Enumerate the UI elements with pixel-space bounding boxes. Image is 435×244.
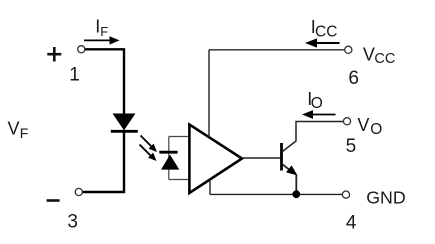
current arrow ICC bbox=[305, 38, 340, 47]
svg-text:GND: GND bbox=[366, 188, 406, 208]
photodiode bottom stub wire bbox=[169, 179, 190, 181]
svg-text:6: 6 bbox=[348, 68, 359, 89]
light emission arrow 1 bbox=[141, 136, 158, 153]
terminal pin 4 bbox=[342, 191, 349, 198]
junction node emitter-GND bbox=[292, 190, 300, 198]
svg-text:F: F bbox=[20, 125, 29, 141]
svg-text:V: V bbox=[357, 115, 369, 135]
svg-text:F: F bbox=[100, 24, 108, 39]
svg-text:V: V bbox=[363, 44, 375, 64]
svg-text:O: O bbox=[311, 95, 323, 112]
svg-text:5: 5 bbox=[346, 136, 357, 157]
wire GND drop from amp bbox=[209, 181, 211, 195]
photodiode axis wire bbox=[168, 137, 170, 180]
op-amp / detector amplifier U1 bbox=[189, 125, 242, 194]
wire base from amp to transistor bbox=[242, 157, 282, 159]
terminal pin 6 bbox=[345, 46, 352, 53]
LED D1 (emitter diode) bbox=[114, 114, 135, 130]
svg-text:4: 4 bbox=[346, 213, 357, 234]
wire GND rail to pin 4 bbox=[210, 193, 342, 195]
wire pin1 to LED anode bbox=[85, 49, 124, 114]
wire Vcc riser from amp bbox=[208, 50, 210, 138]
terminal pin 3 bbox=[75, 188, 82, 195]
svg-text:3: 3 bbox=[67, 211, 78, 232]
terminal pin 1 bbox=[78, 46, 85, 53]
svg-text:1: 1 bbox=[69, 64, 80, 85]
transistor emitter bbox=[282, 164, 297, 194]
LED cathode bar bbox=[111, 130, 138, 133]
transistor collector wire to pin 5 bbox=[283, 122, 344, 152]
wire LED cathode to pin 3 bbox=[83, 132, 125, 193]
svg-text:V: V bbox=[8, 119, 20, 139]
svg-text:CC: CC bbox=[315, 24, 337, 41]
transistor Q1 base bar bbox=[280, 143, 283, 171]
terminal pin 5 bbox=[343, 118, 350, 125]
photodiode top stub wire bbox=[169, 136, 190, 138]
minus sign (-) input polarity bbox=[47, 199, 60, 202]
photodiode D2 bbox=[161, 155, 179, 170]
light emission arrow 2 bbox=[140, 145, 157, 162]
svg-text:O: O bbox=[370, 121, 382, 138]
current arrow IF bbox=[84, 36, 120, 44]
svg-text:CC: CC bbox=[374, 51, 395, 67]
photodiode cathode bar bbox=[159, 151, 177, 154]
current arrow IO bbox=[302, 110, 336, 119]
wire Vcc rail to pin 6 bbox=[209, 49, 345, 51]
plus sign (+) input polarity bbox=[47, 47, 61, 62]
